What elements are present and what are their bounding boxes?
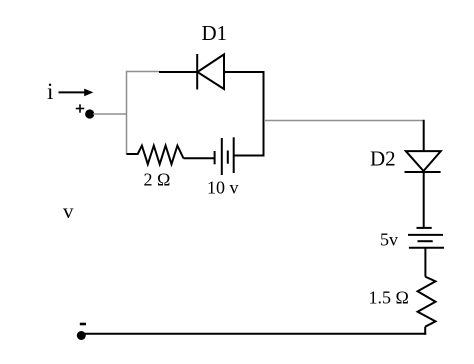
wire: D1 cathode lead — [159, 71, 197, 73]
svg-text:1.5 Ω: 1.5 Ω — [369, 287, 409, 307]
node: positive terminal dot — [85, 109, 94, 118]
wire: bottom rail — [81, 333, 426, 335]
resistor R2 1.5 ohm — [418, 277, 436, 327]
battery V2 5v — [408, 228, 444, 248]
current direction arrow — [59, 89, 94, 97]
svg-text:5v: 5v — [380, 229, 398, 249]
wire: resistor to battery lead — [184, 157, 215, 159]
resistor R1 2 ohm — [127, 146, 184, 165]
minus terminal label — [80, 323, 86, 326]
wire: D2 cathode to battery — [423, 172, 425, 228]
svg-text:i: i — [47, 79, 53, 104]
wire: D1 anode lead — [224, 71, 265, 73]
wire: mid-right rail to D2 branch — [264, 120, 424, 122]
wire: resistor to bottom rail — [424, 327, 426, 335]
diode D2 — [405, 151, 441, 172]
plus terminal label — [76, 104, 84, 112]
wire: dot to left rail — [93, 113, 127, 115]
svg-text:2 Ω: 2 Ω — [144, 170, 171, 190]
wire: right rail vertical — [263, 71, 265, 156]
battery V1 10v — [215, 137, 234, 175]
wire: D2 anode lead — [423, 120, 425, 152]
wire: battery to resistor lead — [424, 248, 426, 277]
svg-text:D2: D2 — [370, 147, 396, 171]
diode D1 — [197, 54, 224, 90]
svg-text:10 v: 10 v — [207, 178, 239, 198]
node: negative terminal dot — [77, 331, 86, 340]
wire: left rail vertical — [126, 72, 128, 155]
wire: battery to right rail — [234, 155, 265, 157]
svg-text:D1: D1 — [202, 21, 228, 45]
svg-text:v: v — [63, 199, 74, 223]
wire: top rail gray segment — [126, 71, 160, 73]
